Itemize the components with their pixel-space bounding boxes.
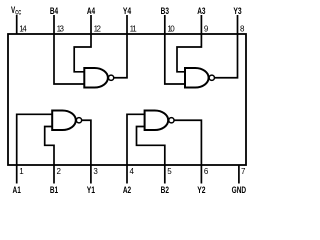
svg-text:A2: A2 (123, 185, 131, 195)
wire gate 1 output to Y1 (pin 3) (82, 120, 91, 165)
wire gate 3 output to Y3 (pin 8) (214, 34, 237, 78)
svg-text:VCC: VCC (11, 5, 22, 17)
wire A2 (pin 4) to gate 2 upper input (127, 114, 145, 165)
svg-text:12: 12 (94, 25, 102, 34)
svg-text:3: 3 (93, 167, 98, 176)
NAND gate 3 (185, 68, 214, 88)
svg-text:5: 5 (167, 167, 172, 176)
svg-text:Y2: Y2 (197, 185, 205, 195)
svg-text:6: 6 (204, 167, 209, 176)
svg-text:7: 7 (241, 167, 246, 176)
wire gate 2 output to Y2 (pin 6) (174, 120, 201, 165)
svg-text:13: 13 (57, 25, 65, 34)
wire B2 (pin 5) to gate 2 lower input (137, 127, 165, 166)
svg-text:A3: A3 (197, 6, 205, 16)
svg-text:Y3: Y3 (233, 6, 241, 16)
svg-text:2: 2 (57, 167, 62, 176)
wire B3 (pin 10) to gate 3 lower input (165, 34, 185, 84)
svg-text:Y4: Y4 (123, 6, 131, 16)
wire B1 (pin 2) to gate 1 lower input (45, 127, 54, 166)
svg-text:Y1: Y1 (87, 185, 95, 195)
svg-text:B4: B4 (50, 6, 58, 16)
svg-text:4: 4 (130, 167, 135, 176)
wire A4 (pin 12) to gate 4 upper input (74, 34, 91, 72)
pin 6 stub (Y2) (200, 165, 202, 184)
pin 1 stub (A1) (16, 165, 18, 184)
pin 13 stub (B4) (53, 15, 55, 34)
pin 14 stub (Vcc) (16, 15, 18, 34)
svg-text:14: 14 (19, 25, 27, 34)
pin 4 stub (A2) (126, 165, 128, 184)
svg-text:9: 9 (204, 25, 209, 34)
NAND gate 4 (84, 68, 113, 88)
svg-text:1: 1 (19, 167, 24, 176)
pin 2 stub (B1) (53, 165, 55, 184)
wire A1 (pin 1) to gate 1 upper input (17, 114, 53, 165)
pin 10 stub (B3) (164, 15, 166, 34)
IC package outline (8, 34, 246, 165)
svg-text:B1: B1 (50, 185, 58, 195)
wire B4 (pin 13) to gate 4 lower input (54, 34, 84, 84)
wire gate 4 output to Y4 (pin 11) (114, 34, 127, 78)
svg-text:B2: B2 (161, 185, 169, 195)
svg-text:B3: B3 (161, 6, 169, 16)
pin 12 stub (A4) (90, 15, 92, 34)
pin 7 stub (GND) (238, 165, 240, 184)
pin 9 stub (A3) (200, 15, 202, 34)
NAND gate 1 (52, 111, 81, 131)
pin 8 stub (Y3) (237, 15, 239, 34)
svg-text:GND: GND (232, 185, 247, 195)
svg-text:10: 10 (167, 25, 175, 34)
svg-text:A1: A1 (13, 185, 21, 195)
pin 5 stub (B2) (164, 165, 166, 184)
pin 3 stub (Y1) (90, 165, 92, 184)
svg-text:8: 8 (240, 25, 245, 34)
wire A3 (pin 9) to gate 3 upper input (177, 34, 201, 72)
svg-text:11: 11 (130, 25, 138, 34)
NAND gate 2 (145, 111, 174, 131)
pin 11 stub (Y4) (126, 15, 128, 34)
svg-text:A4: A4 (87, 6, 95, 16)
